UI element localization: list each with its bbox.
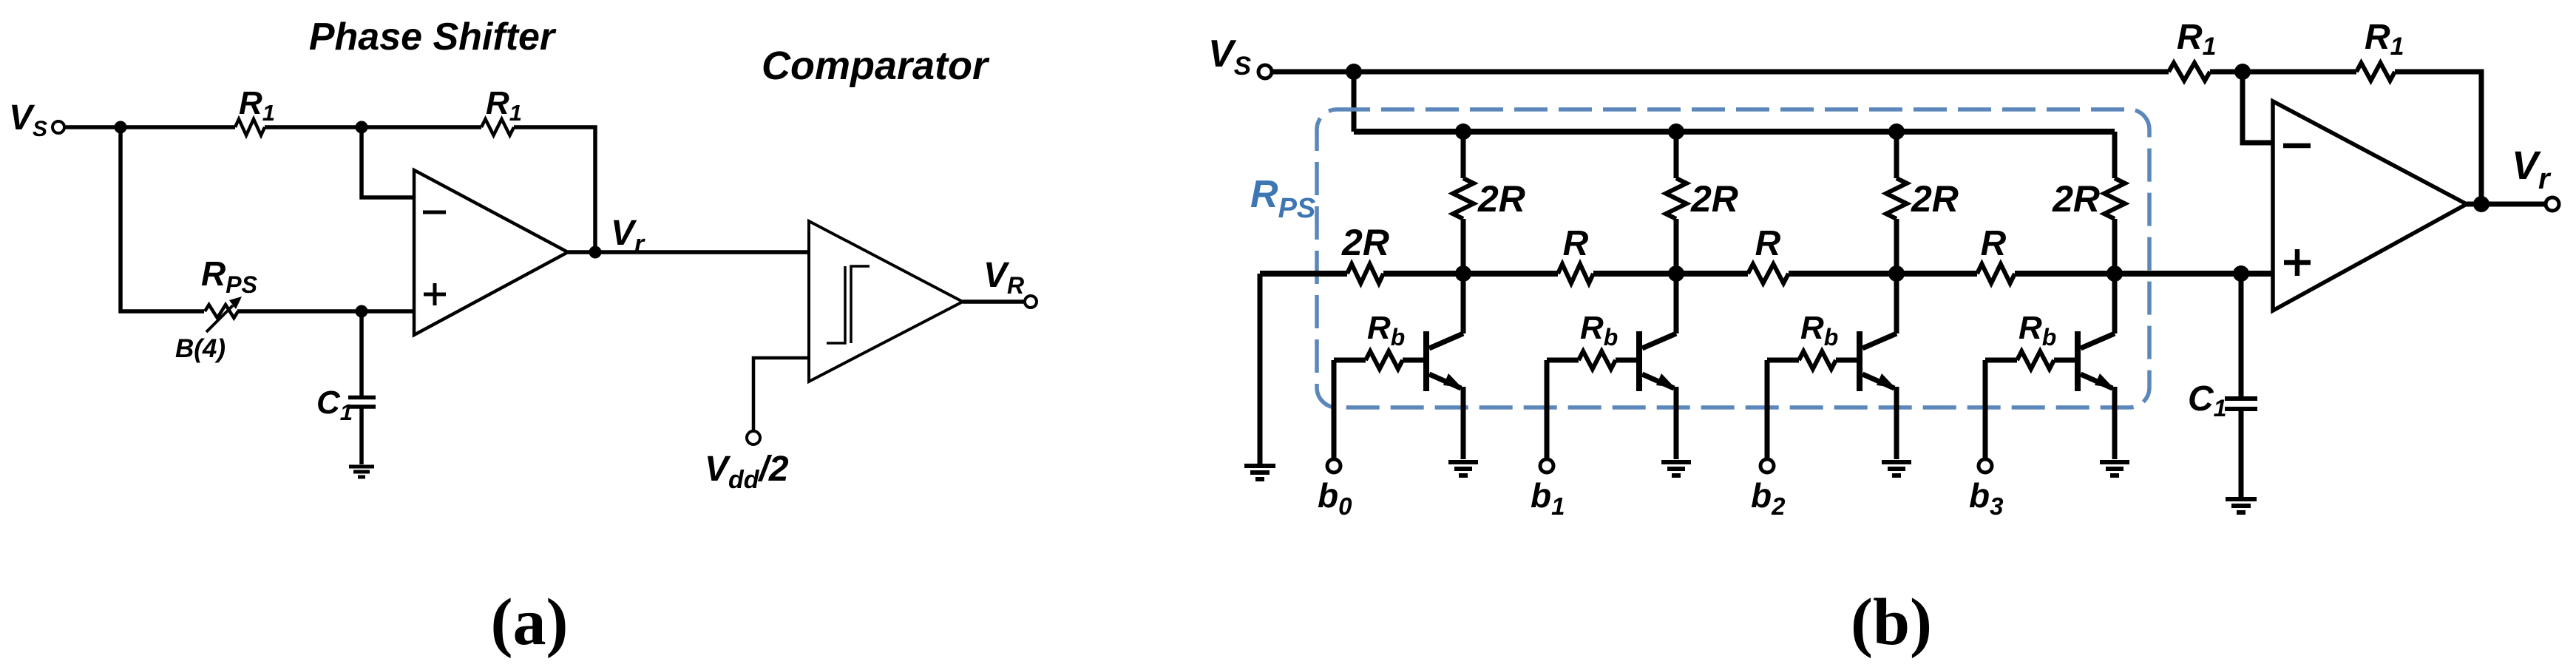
wire Rb to base Q3 [2054,358,2075,363]
wire node C down to C1 [359,311,364,396]
node C junction [356,305,368,318]
node top junction [1346,64,1362,80]
node C1 junction (b) [2233,265,2249,282]
wire Rb to base Q2 [1836,358,1857,363]
resistor Rb Q1 [1579,351,1616,369]
wire top bus to 2R resistor 0 [1461,132,1466,178]
wire top bus to 2R resistor 2 [1894,132,1899,178]
resistor 2R vertical 1 [1666,178,1687,219]
svg-text:R: R [1755,224,1781,263]
wire R1 to node B [265,125,362,129]
terminal b0 [1327,459,1340,473]
node ladder top junction 2 [1888,123,1905,140]
transistor Q3 [2075,331,2081,391]
wire collector Q3 [2112,274,2118,333]
svg-text:2R: 2R [1690,178,1738,220]
wire emitter Q1 to ground [1674,387,1679,459]
wire base terminal b0 [1332,360,1337,459]
wire VS junction down to ladder bus [1352,72,1357,132]
ground below C1 (a) [349,467,374,477]
wire base branch Q3 [1985,358,2017,363]
resistor RPS variable [205,305,238,318]
resistor 2R vertical 2 [1886,178,1907,219]
svg-text:Phase Shifter: Phase Shifter [309,16,557,58]
wire collector Q0 [1461,274,1466,333]
transistor Q0 [1423,331,1429,391]
wire node A to R1 [121,125,235,129]
terminal VS (a) [52,121,64,133]
resistor R1 first (b) [2169,63,2210,81]
node ladder top junction 3 [0,0,1,1]
wire C1 (b) down [2239,274,2244,398]
ground emitter Q2 [1882,462,1911,475]
wire top bus to 2R resistor 3 [2112,132,2118,178]
op-amp U1 phase shifter [414,170,568,335]
op-amp U3 [2273,101,2467,311]
wire base terminal b2 [1765,360,1770,459]
wire node A down to plus branch [121,127,204,311]
ground emitter Q1 [1661,462,1691,475]
wire 2R resistor to middle bus 1 [1674,219,1679,274]
wire between R1 resistors [2210,70,2356,75]
node Vr junction (a) [589,246,602,259]
node middle bus junction 2 [1888,265,1905,282]
wire R1 to feedback corner [2395,72,2481,204]
ground emitter Q3 [2100,462,2129,475]
wire middle bus segment 2 [1383,271,1558,277]
wire middle bus segment 4 [1789,271,1977,277]
wire R1 feedback to corner and down to output [514,127,595,252]
node middle bus junction 3 [2106,265,2123,282]
wire 2R resistor to middle bus 3 [2112,219,2118,274]
transistor Q1 [1636,331,1642,391]
resistor R series 1 [1558,264,1593,283]
wire Rb to base Q0 [1403,358,1423,363]
node ladder top junction 1 [1668,123,1684,140]
capacitor C1 (a) [348,398,376,407]
resistor 2R series [1347,264,1383,283]
resistor Rb Q3 [2017,351,2054,369]
wire Rb to base Q1 [1616,358,1636,363]
svg-text:2R: 2R [1477,178,1525,220]
wire base branch Q1 [1547,358,1579,363]
svg-text:Comparator: Comparator [762,44,990,88]
wire C1 to ground (b) [2239,410,2244,498]
svg-text:(b): (b) [1851,586,1932,659]
wire collector Q2 [1894,274,1899,333]
ground below C1 (b) [2226,499,2257,512]
resistor Rb Q2 [1799,351,1836,369]
plus sign U3 [2284,249,2311,276]
wire base terminal b3 [1983,360,1988,459]
resistor R series 3 [1977,264,2015,283]
terminal b3 [1979,459,1992,473]
terminal VR output [1025,296,1037,308]
wire VS to node A [64,125,121,129]
wire U2 output [963,299,1025,304]
wire 2R resistor to middle bus 0 [1461,219,1466,274]
node B junction [356,121,368,134]
wire base branch Q2 [1767,358,1799,363]
node ladder top junction 0 [1455,123,1471,140]
terminal VS (b) [1258,65,1272,78]
wire emitter Q3 to ground [2112,387,2118,459]
wire base terminal b1 [1545,360,1550,459]
node A junction [115,121,127,134]
wire middle bus segment 5 [2015,271,2273,277]
terminal Vdd/2 [747,431,760,444]
svg-text:R: R [1981,224,2007,263]
wire top bus to 2R resistor 1 [1674,132,1679,178]
svg-text:2R: 2R [2052,178,2100,220]
resistor 2R vertical 0 [1453,178,1474,219]
resistor R1 feedback (a) [481,119,514,135]
resistor R1 feedback (b) [2356,63,2395,81]
svg-text:2R: 2R [1911,178,1959,220]
hysteresis symbol in U2 [827,266,870,343]
wire left branch down to ground [1258,274,1263,464]
wire Vdd/2 to comparator [753,358,809,431]
wire emitter Q0 to ground [1461,387,1466,459]
terminal b2 [1760,459,1774,473]
resistor 2R vertical 3 [2104,178,2125,219]
wire U1 output to comparator [568,250,809,254]
node middle bus junction 0 [1455,265,1471,282]
svg-text:B(4): B(4) [175,334,226,363]
wire junction down to inverting input [2243,72,2273,143]
wire RPS to node C and plus input [237,309,414,314]
wire node B down to inverting input [362,127,414,197]
wire middle bus segment 3 [1593,271,1748,277]
resistor R1 input (a) [235,119,265,135]
svg-text:R: R [1563,224,1589,263]
node Vr junction (b) [2473,196,2489,212]
minus sign U1 [423,211,446,214]
ground emitter Q0 [1448,462,1478,475]
resistor R series 2 [1748,264,1789,283]
minus sign U3 [2283,143,2311,149]
node middle bus junction 1 [1668,265,1684,282]
wire U3 output [2467,202,2546,207]
wire middle bus segment 1 [1260,271,1347,277]
terminal Vr (b) [2546,197,2559,211]
svg-text:2R: 2R [1341,222,1389,263]
svg-text:(a): (a) [491,586,569,659]
wire C1 to ground [359,408,364,464]
arrow of variable resistor RPS [206,305,233,332]
node R1 junction (b) [2234,64,2251,80]
dashed box RPS [1317,109,2149,407]
wire collector Q1 [1674,274,1679,333]
terminal b1 [1540,459,1553,473]
wire VS top bus [1272,70,2169,75]
wire 2R resistor to middle bus 2 [1894,219,1899,274]
wire node B to R1 feedback [362,125,481,129]
comparator U2 [809,221,963,382]
resistor Rb Q0 [1366,351,1403,369]
wire base branch Q0 [1334,358,1366,363]
capacitor C1 (b) [2225,399,2257,409]
plus sign U1 [424,283,446,305]
wire emitter Q2 to ground [1894,387,1899,459]
ground left (b) [1244,466,1275,479]
transistor Q2 [1857,331,1862,391]
wire ladder top bus [1354,129,2115,135]
